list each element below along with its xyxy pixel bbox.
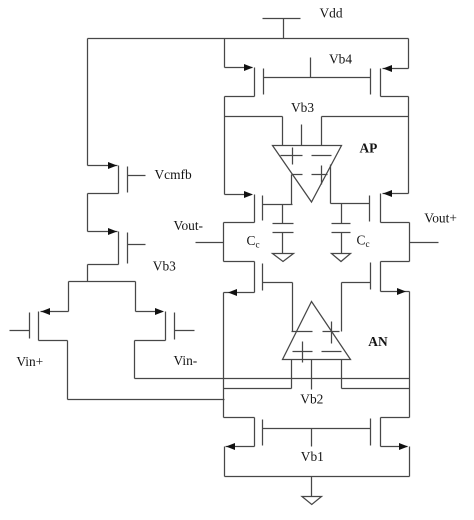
- node Vb4 gate tick: [310, 58, 312, 78]
- label Vb1: [301, 449, 324, 464]
- transistor M10 Vb3 cascode PMOS: [88, 228, 146, 265]
- op-amp AP floating source triangle: [273, 146, 342, 203]
- label Vb3 left: [153, 259, 176, 274]
- wire Vout+ stub: [410, 242, 439, 244]
- svg-text:Vin-: Vin-: [174, 353, 198, 368]
- svg-text:AN: AN: [368, 334, 388, 349]
- label Vout+: [424, 211, 457, 226]
- transistor M9 Vcmfb PMOS: [88, 162, 146, 194]
- wire class-AB rail left: [224, 388, 292, 390]
- wire Vout- node column: [223, 223, 225, 262]
- label Vout-: [174, 218, 204, 233]
- wire Vout- stub: [196, 242, 224, 244]
- label Cc left: [247, 233, 260, 251]
- label Vin-: [174, 353, 198, 368]
- wire ground rail: [225, 476, 410, 478]
- wire Vb4 left source from rail: [224, 39, 226, 68]
- transistor M11 Vb1 NMOS left: [224, 418, 263, 477]
- label Vin+: [16, 354, 43, 369]
- wire Vb4 right drain column: [408, 97, 410, 194]
- svg-text:Vb1: Vb1: [301, 449, 324, 464]
- power Vdd symbol: [263, 19, 301, 39]
- wire class-AB rail right: [342, 388, 410, 390]
- svg-text:Vout+: Vout+: [424, 211, 457, 226]
- svg-text:Vout-: Vout-: [174, 218, 204, 233]
- svg-text:Vcmfb: Vcmfb: [155, 167, 192, 182]
- svg-text:Vb3: Vb3: [291, 100, 314, 115]
- wire AN right bottom lead: [341, 360, 343, 389]
- transistor M7 output NMOS left: [224, 262, 293, 297]
- transistor M4 Vb4 PMOS right: [371, 65, 409, 97]
- transistor M8 output NMOS right: [342, 262, 410, 296]
- transistor M6 output PMOS right: [331, 190, 410, 223]
- label Vb4: [329, 52, 352, 67]
- label AN: [368, 334, 388, 349]
- wire right output source column: [409, 292, 411, 418]
- wire Vb4 right source from rail: [408, 39, 410, 69]
- wire left output source column: [223, 293, 225, 418]
- label AP: [360, 140, 378, 155]
- node AP minus mark upper-right: [312, 155, 332, 157]
- transistor M3 Vb4 PMOS left: [225, 64, 264, 97]
- label Vb2: [300, 391, 323, 406]
- node Vb1 gate tick: [311, 429, 313, 447]
- op-amp AN floating source triangle: [283, 302, 351, 360]
- wire AP right output lead: [330, 165, 332, 204]
- node AN plus mark lower-left: [293, 342, 313, 363]
- transistor M1 Vin+ input PMOS: [10, 308, 69, 341]
- capacitor Cc left: [273, 205, 294, 254]
- wire Vcmfb drain to cascode source: [87, 194, 89, 232]
- wire AP left input feed: [225, 117, 283, 146]
- svg-text:c: c: [366, 240, 370, 250]
- ground under left Cc: [273, 254, 294, 262]
- transistor M5 output PMOS left: [224, 191, 293, 223]
- svg-text:Vb3: Vb3: [153, 259, 176, 274]
- node AN plus mark upper-right: [323, 322, 340, 344]
- wire AN left input lead: [292, 283, 294, 332]
- label Vb3 at AP: [291, 100, 314, 115]
- wire Vin- drain to right output branch: [135, 341, 410, 379]
- svg-text:C: C: [357, 233, 366, 248]
- capacitor Cc right: [332, 204, 351, 254]
- wire AN right input lead: [341, 283, 343, 332]
- ground symbol: [302, 477, 322, 505]
- wire left branch from Vdd rail: [87, 39, 89, 166]
- svg-text:Vb2: Vb2: [300, 391, 323, 406]
- node Vb3 bias tick at AP: [301, 125, 303, 146]
- transistor M2 Vin- input PMOS: [135, 308, 195, 341]
- wire tail node bar: [69, 282, 136, 312]
- transistor M12 Vb1 NMOS right: [371, 418, 410, 477]
- wire Vout+ node column: [409, 223, 411, 262]
- svg-text:AP: AP: [360, 140, 378, 155]
- node AP minus mark lower-left: [292, 174, 303, 176]
- label Cc right: [357, 233, 370, 251]
- wire cascode drain to tail node: [87, 265, 89, 282]
- wire Vdd rail: [88, 38, 409, 40]
- label Vdd: [320, 6, 343, 21]
- wire AP right input feed: [322, 117, 409, 146]
- svg-text:Vdd: Vdd: [320, 6, 343, 21]
- wire Vin+ drain to left output branch: [68, 341, 225, 400]
- node AP plus mark upper-left: [281, 148, 303, 165]
- label Vcmfb: [155, 167, 192, 182]
- wire AN left bottom lead: [291, 360, 293, 389]
- svg-text:C: C: [247, 233, 256, 248]
- svg-text:c: c: [256, 241, 260, 251]
- node AP plus mark lower-right: [312, 166, 328, 185]
- wire Vb1 gate line: [263, 428, 371, 430]
- svg-text:Vb4: Vb4: [329, 52, 352, 67]
- ground under right Cc: [332, 254, 351, 262]
- wire AP left output lead: [291, 175, 293, 205]
- node Vb2 tick: [311, 360, 313, 390]
- svg-text:Vin+: Vin+: [16, 354, 43, 369]
- node AN minus mark lower-right: [322, 351, 342, 353]
- node AN minus mark upper-left: [292, 331, 313, 333]
- wire Vb4 left drain column: [224, 97, 226, 195]
- wire Vb4 gate line: [264, 77, 371, 79]
